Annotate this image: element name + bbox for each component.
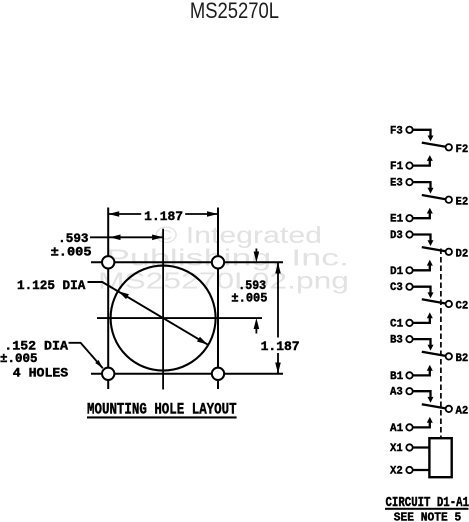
svg-text:F3: F3 xyxy=(390,125,403,137)
svg-text:MOUNTING HOLE LAYOUT: MOUNTING HOLE LAYOUT xyxy=(87,400,237,418)
svg-text:B1: B1 xyxy=(390,371,404,383)
svg-text:D3: D3 xyxy=(390,230,403,242)
svg-text:1.125 DIA: 1.125 DIA xyxy=(17,279,86,293)
svg-text:1.187: 1.187 xyxy=(261,340,300,354)
svg-text:D1: D1 xyxy=(390,266,404,278)
svg-text:E1: E1 xyxy=(390,214,404,226)
svg-text:A1: A1 xyxy=(390,423,404,435)
svg-text:B3: B3 xyxy=(390,335,403,347)
svg-text:.593: .593 xyxy=(58,232,88,246)
svg-text:F2: F2 xyxy=(456,144,469,156)
svg-text:X1: X1 xyxy=(390,443,403,455)
svg-text:E2: E2 xyxy=(456,196,469,208)
svg-text:±.005: ±.005 xyxy=(51,246,92,260)
svg-text:1.187: 1.187 xyxy=(144,210,183,224)
svg-text:±.005: ±.005 xyxy=(0,352,38,366)
svg-text:B2: B2 xyxy=(456,353,469,365)
svg-text:4 HOLES: 4 HOLES xyxy=(13,366,69,380)
svg-text:C3: C3 xyxy=(390,282,403,294)
svg-text:SEE NOTE 5: SEE NOTE 5 xyxy=(394,512,461,522)
svg-text:D2: D2 xyxy=(456,249,469,261)
svg-text:±.005: ±.005 xyxy=(231,291,267,305)
svg-text:MS25270L02.png: MS25270L02.png xyxy=(98,268,349,294)
svg-text:A2: A2 xyxy=(456,406,469,418)
svg-text:MS25270L: MS25270L xyxy=(190,0,279,23)
svg-text:X2: X2 xyxy=(390,466,403,478)
svg-text:C1: C1 xyxy=(390,318,404,330)
svg-text:C2: C2 xyxy=(456,301,469,313)
svg-text:A3: A3 xyxy=(390,387,403,399)
svg-text:F1: F1 xyxy=(390,161,404,173)
svg-text:E3: E3 xyxy=(390,178,403,190)
